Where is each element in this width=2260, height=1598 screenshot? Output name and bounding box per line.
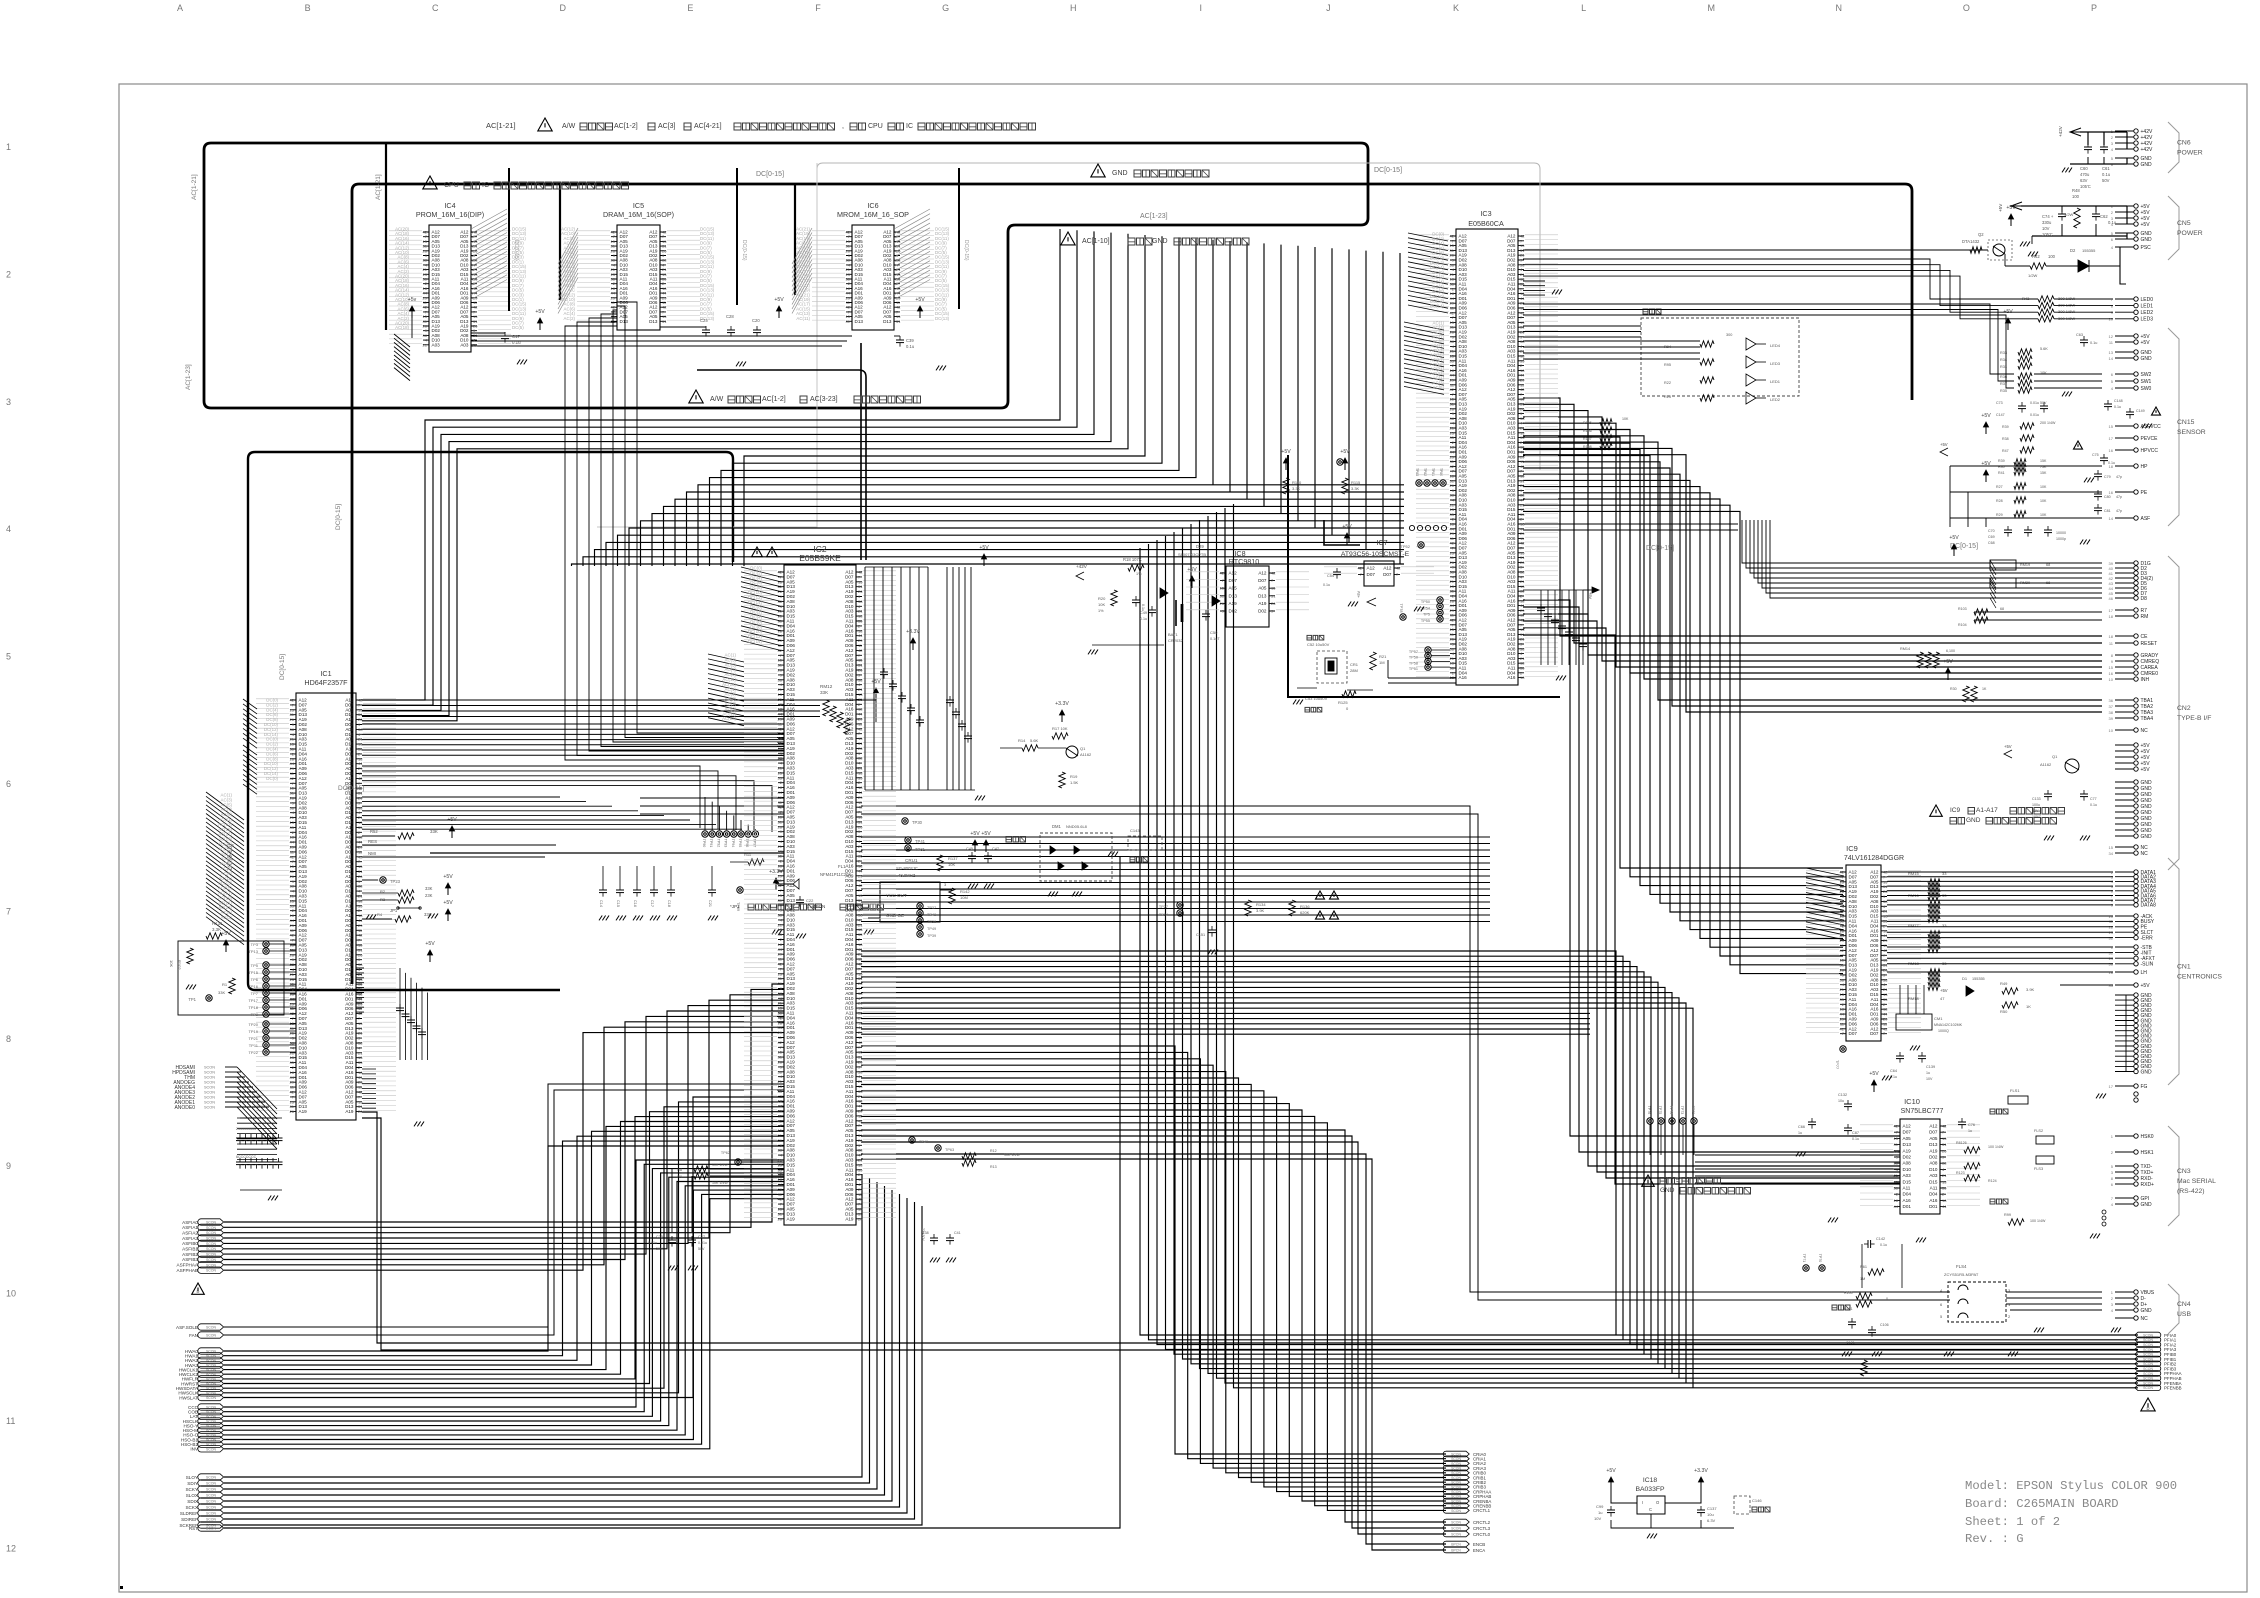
svg-text:1%: 1% bbox=[1098, 609, 1104, 613]
svg-text:ASFIA2: ASFIA2 bbox=[182, 1231, 198, 1236]
svg-text:6.3V: 6.3V bbox=[1707, 1518, 1716, 1523]
svg-text:IC5: IC5 bbox=[633, 201, 644, 210]
svg-text:16: 16 bbox=[2109, 671, 2114, 676]
svg-text:C17: C17 bbox=[650, 900, 654, 907]
resistor R43 R44 R45 R46 LED outputs bbox=[2022, 296, 2153, 323]
svg-text:C41: C41 bbox=[954, 1231, 961, 1235]
svg-text:BA033FP: BA033FP bbox=[1635, 1486, 1665, 1493]
svg-text:330u: 330u bbox=[2042, 220, 2052, 225]
svg-text:31: 31 bbox=[1894, 1142, 1899, 1147]
svg-text:+5V: +5V bbox=[443, 900, 453, 906]
svg-text:D13: D13 bbox=[883, 319, 892, 324]
svg-text:MNA142C102MK: MNA142C102MK bbox=[1934, 1023, 1963, 1027]
svg-text:AT93C56-10SCMST-E: AT93C56-10SCMST-E bbox=[1341, 551, 1410, 558]
svg-text:TP24: TP24 bbox=[1159, 913, 1168, 917]
svg-text:OPCN: OPCN bbox=[812, 904, 825, 909]
svg-text:RM12: RM12 bbox=[820, 684, 833, 689]
svg-text:A12: A12 bbox=[1367, 566, 1376, 571]
svg-text:D: D bbox=[2146, 1406, 2149, 1411]
svg-text:31: 31 bbox=[846, 319, 851, 324]
svg-text:0: 0 bbox=[1886, 1297, 1888, 1301]
wire bus IC3 to PF stubs fan bbox=[1523, 524, 1738, 530]
svg-text:A19: A19 bbox=[1903, 1148, 1912, 1153]
svg-text:33K: 33K bbox=[430, 829, 438, 834]
wire TP90-97 drops bbox=[705, 797, 755, 830]
svg-text:100u: 100u bbox=[2032, 803, 2040, 807]
svg-text:R110: R110 bbox=[1292, 480, 1302, 485]
svg-text:DC(0-15): DC(0-15) bbox=[513, 240, 519, 261]
svg-text:37: 37 bbox=[2109, 704, 2114, 709]
svg-text:RM18: RM18 bbox=[1908, 996, 1919, 1001]
svg-text:33K: 33K bbox=[820, 690, 829, 695]
svg-text:C50: C50 bbox=[1210, 630, 1218, 635]
svg-text:MROM_16M_16_SOP: MROM_16M_16_SOP bbox=[837, 210, 909, 219]
svg-text:SCON: SCON bbox=[206, 1334, 217, 1338]
svg-text:36: 36 bbox=[2109, 698, 2114, 703]
wire bus AC drop to IC6 bbox=[794, 185, 796, 295]
svg-text:10K: 10K bbox=[948, 862, 955, 867]
svg-text:SCON: SCON bbox=[206, 1500, 217, 1504]
svg-text:A05: A05 bbox=[1929, 1136, 1938, 1141]
svg-text:R19: R19 bbox=[1070, 774, 1078, 779]
svg-text:TP52: TP52 bbox=[1400, 544, 1410, 549]
svg-text:TP78: TP78 bbox=[1399, 603, 1403, 612]
svg-text:POWER: POWER bbox=[2177, 150, 2203, 157]
svg-text:BCON: BCON bbox=[206, 1527, 217, 1531]
svg-text:A03: A03 bbox=[460, 342, 469, 347]
svg-text:TP48: TP48 bbox=[927, 913, 936, 917]
svg-text:1u: 1u bbox=[1926, 1071, 1930, 1075]
svg-text:R48: R48 bbox=[2072, 188, 2080, 193]
svg-text:LED1: LED1 bbox=[2141, 303, 2154, 309]
svg-text:200 1/4W: 200 1/4W bbox=[2040, 421, 2056, 425]
svg-text:R137: R137 bbox=[948, 856, 958, 861]
svg-text:R108: R108 bbox=[1583, 445, 1592, 449]
svg-text:NND05.6L8: NND05.6L8 bbox=[1066, 824, 1088, 829]
svg-text:ZCYS51R5-M3PAT: ZCYS51R5-M3PAT bbox=[1944, 1272, 1979, 1277]
svg-text:47: 47 bbox=[1940, 996, 1945, 1001]
capacitor C60 C61 bbox=[2058, 125, 2127, 189]
svg-text:FLS2: FLS2 bbox=[2034, 1129, 2043, 1133]
svg-text:+5V: +5V bbox=[970, 831, 980, 837]
svg-text:50V: 50V bbox=[698, 1247, 705, 1251]
svg-text:C18: C18 bbox=[667, 900, 671, 907]
svg-text:LED1: LED1 bbox=[1770, 379, 1781, 384]
svg-text:TP77: TP77 bbox=[1835, 1060, 1839, 1069]
svg-text:GND: GND bbox=[2141, 356, 2153, 362]
svg-text:100 1/4W: 100 1/4W bbox=[2030, 1219, 2046, 1223]
warning triangle D bottom right bbox=[2141, 1398, 2155, 1411]
svg-text:10000: 10000 bbox=[2056, 531, 2066, 535]
svg-text:AC[1-21]: AC[1-21] bbox=[375, 174, 382, 200]
svg-text:CENTRONICS: CENTRONICS bbox=[2177, 974, 2222, 981]
svg-text:CR1: CR1 bbox=[1350, 662, 1359, 667]
svg-text:10: 10 bbox=[2109, 677, 2114, 682]
svg-text:F: F bbox=[815, 3, 821, 13]
svg-text:10: 10 bbox=[6, 1289, 16, 1299]
svg-text:+5V: +5V bbox=[1342, 524, 1352, 530]
connector CN15 SENSOR bbox=[2109, 328, 2206, 526]
svg-text:3.3K: 3.3K bbox=[212, 927, 221, 932]
svg-text:C131: C131 bbox=[1846, 1341, 1855, 1345]
capacitor C24 C28 C20 bbox=[660, 297, 784, 366]
transistor Q1 A1162 capacitor C133 C77 bbox=[2004, 744, 2097, 840]
svg-text:A19: A19 bbox=[845, 1216, 854, 1221]
svg-text:C14: C14 bbox=[599, 900, 603, 907]
diode module DM1 NND05.6L8 bbox=[966, 824, 1112, 896]
svg-text:+5V: +5V bbox=[915, 297, 925, 303]
svg-text:105'C: 105'C bbox=[2042, 232, 2053, 237]
svg-text:+5V: +5V bbox=[1281, 449, 1291, 455]
svg-text:16: 16 bbox=[2109, 448, 2114, 453]
svg-text:SCON: SCON bbox=[1451, 1532, 1461, 1536]
svg-text:PEVCE: PEVCE bbox=[2141, 436, 2159, 442]
svg-text:15: 15 bbox=[2109, 845, 2114, 850]
svg-text:C137: C137 bbox=[1707, 1506, 1717, 1511]
svg-text:R11: R11 bbox=[744, 852, 752, 857]
svg-text:46: 46 bbox=[2109, 596, 2114, 601]
svg-text:TP96: TP96 bbox=[745, 839, 749, 848]
wire bus AC drop to IC4 bbox=[385, 144, 387, 330]
svg-text:TP63: TP63 bbox=[945, 1148, 954, 1152]
svg-text:10K: 10K bbox=[2040, 513, 2047, 517]
svg-text:FAN: FAN bbox=[189, 1333, 198, 1338]
svg-text:A1-A17: A1-A17 bbox=[1976, 807, 1998, 814]
svg-text:R134: R134 bbox=[1256, 902, 1266, 907]
svg-text:48.0MHZ: 48.0MHZ bbox=[898, 873, 916, 878]
svg-text:26: 26 bbox=[1271, 601, 1276, 606]
svg-text:A16: A16 bbox=[1903, 1198, 1912, 1203]
svg-text:G: G bbox=[942, 3, 949, 13]
svg-text:68: 68 bbox=[2000, 607, 2004, 611]
svg-text:-ERR: -ERR bbox=[2141, 935, 2154, 941]
svg-text:DC(0-15): DC(0-15) bbox=[741, 240, 747, 261]
text AC(1-21) vertical label2 bbox=[375, 174, 382, 200]
svg-text:RST: RST bbox=[189, 1526, 198, 1531]
svg-text:AC[4-21]: AC[4-21] bbox=[694, 123, 722, 130]
svg-text:C148: C148 bbox=[2114, 399, 2123, 403]
svg-text:44: 44 bbox=[1942, 1204, 1947, 1209]
svg-text:31: 31 bbox=[896, 319, 901, 324]
svg-text:TP31: TP31 bbox=[915, 847, 926, 852]
svg-text:TP30: TP30 bbox=[912, 820, 923, 825]
svg-text:7: 7 bbox=[6, 906, 11, 916]
svg-text:SDIY: SDIY bbox=[187, 1481, 198, 1486]
text annotation AC(1-21) separation note bbox=[486, 118, 1036, 131]
svg-text:AC[1-10]: AC[1-10] bbox=[1082, 238, 1110, 245]
svg-text:DC(5): DC(5) bbox=[512, 325, 524, 330]
svg-text:TP18: TP18 bbox=[248, 1005, 258, 1010]
svg-text:0.01u: 0.01u bbox=[2030, 413, 2039, 417]
svg-text:+5V: +5V bbox=[871, 679, 881, 685]
svg-text:IC9: IC9 bbox=[1950, 807, 1961, 814]
text annotation IC9 guard note bbox=[1930, 805, 2065, 824]
svg-text:AC(11): AC(11) bbox=[796, 316, 810, 321]
svg-text:15K: 15K bbox=[2040, 459, 2047, 463]
svg-text:RM: RM bbox=[2141, 614, 2149, 620]
svg-text:C133: C133 bbox=[2032, 797, 2041, 801]
wire USBINT HINT rows bbox=[640, 798, 784, 814]
svg-text:TP91: TP91 bbox=[709, 839, 713, 848]
svg-text:R3: R3 bbox=[380, 897, 386, 902]
svg-text:17: 17 bbox=[2109, 608, 2114, 613]
svg-text:C68: C68 bbox=[1988, 541, 1995, 545]
wire CN4 row nets bbox=[2006, 1292, 2102, 1310]
svg-text:TP17: TP17 bbox=[248, 998, 258, 1003]
resistor R110 R115 IC3 left bbox=[1281, 449, 1446, 549]
svg-text:1K: 1K bbox=[1982, 687, 1987, 691]
svg-text:SCON: SCON bbox=[206, 1420, 217, 1424]
svg-text:R102: R102 bbox=[177, 960, 182, 970]
op-amp IC5 DRAM_16M_16(SOP) bbox=[558, 201, 715, 330]
svg-text:GND: GND bbox=[1112, 170, 1128, 177]
svg-text:D02: D02 bbox=[1258, 609, 1267, 614]
svg-text:620K: 620K bbox=[1300, 910, 1310, 915]
svg-text:R61: R61 bbox=[1860, 1265, 1867, 1269]
crystal CR1 28M cluster bbox=[1293, 635, 1456, 712]
svg-text:TP55: TP55 bbox=[1421, 619, 1430, 623]
svg-text:D04: D04 bbox=[1929, 1192, 1938, 1197]
svg-text:+5V: +5V bbox=[1981, 413, 1991, 419]
svg-text:A16: A16 bbox=[1459, 675, 1468, 680]
svg-text:C47: C47 bbox=[992, 847, 999, 851]
svg-text:0.1u: 0.1u bbox=[2090, 341, 2097, 345]
svg-text:BAT1: BAT1 bbox=[1168, 632, 1178, 637]
svg-text:CE: CE bbox=[2141, 634, 2149, 640]
svg-text:SCON: SCON bbox=[204, 1101, 215, 1105]
svg-text:0.1u: 0.1u bbox=[1323, 583, 1330, 587]
svg-text:C27: C27 bbox=[698, 1235, 705, 1239]
svg-text:10M: 10M bbox=[960, 895, 968, 900]
svg-text:ENCA: ENCA bbox=[1473, 1548, 1485, 1553]
svg-text:SCON: SCON bbox=[204, 1106, 215, 1110]
svg-text:TP38: TP38 bbox=[927, 920, 936, 924]
svg-text:RTC9810: RTC9810 bbox=[1229, 557, 1260, 566]
op-amp IC8 RTC9810 bbox=[1186, 549, 1309, 627]
svg-text:SCON: SCON bbox=[206, 1433, 217, 1437]
svg-text:CN3: CN3 bbox=[2177, 1168, 2191, 1175]
svg-text:1: 1 bbox=[6, 142, 11, 152]
node ASFIA stub column bbox=[177, 1219, 224, 1274]
svg-text:18: 18 bbox=[1520, 675, 1525, 680]
svg-text:R18 107K: R18 107K bbox=[1123, 557, 1142, 562]
svg-text:SDIREF: SDIREF bbox=[181, 1517, 198, 1522]
svg-text:FG: FG bbox=[2141, 1084, 2148, 1090]
svg-text:SCON: SCON bbox=[206, 1377, 217, 1381]
svg-text:12: 12 bbox=[6, 1543, 16, 1553]
svg-text:PFENBB: PFENBB bbox=[2164, 1386, 2182, 1391]
wire bus CRIA/CR stubs to IC2 bbox=[861, 1046, 1446, 1534]
svg-text:5.6K: 5.6K bbox=[2040, 347, 2048, 351]
svg-text:C147: C147 bbox=[1996, 413, 2005, 417]
svg-text:R142: R142 bbox=[960, 889, 970, 894]
svg-text:0.1u: 0.1u bbox=[1141, 604, 1145, 611]
svg-text:21: 21 bbox=[473, 342, 478, 347]
svg-text:AC[1-21]: AC[1-21] bbox=[486, 121, 516, 130]
svg-text:CRCTL0: CRCTL0 bbox=[1473, 1532, 1491, 1537]
testpoint TP62 resistor R8 R9 bbox=[672, 1151, 784, 1232]
text annotation A/W separation note 2 bbox=[689, 390, 921, 403]
svg-text:0.01u: 0.01u bbox=[648, 1241, 657, 1245]
svg-text:+5V: +5V bbox=[2141, 340, 2151, 346]
svg-text:TP97: TP97 bbox=[752, 839, 756, 848]
svg-text:300 1/8W: 300 1/8W bbox=[2058, 316, 2075, 321]
svg-text:+5V: +5V bbox=[1869, 1071, 1879, 1077]
filter FLS4 ZCYS51R5-M3PAT USB parts bbox=[1802, 1237, 2018, 1376]
svg-text:C17: C17 bbox=[512, 334, 521, 339]
svg-text:LED4: LED4 bbox=[1770, 343, 1781, 348]
svg-text:D02: D02 bbox=[1903, 1155, 1912, 1160]
svg-text:1u: 1u bbox=[1798, 1131, 1802, 1135]
svg-text:74LV161284DGGR: 74LV161284DGGR bbox=[1844, 855, 1904, 862]
wire IC6 drop pair bbox=[697, 343, 866, 560]
svg-text:CN2: CN2 bbox=[2177, 705, 2191, 712]
node CCC stub column bbox=[181, 1404, 224, 1452]
svg-text:D: D bbox=[560, 3, 567, 13]
svg-text:SCON: SCON bbox=[206, 1387, 217, 1391]
svg-text:C64: C64 bbox=[1890, 1069, 1897, 1073]
svg-text:AC[1-2]: AC[1-2] bbox=[762, 396, 786, 403]
svg-text:FLS4: FLS4 bbox=[1956, 1264, 1967, 1269]
svg-text:A/W: A/W bbox=[562, 123, 576, 130]
testpoint TP27 TP24 bbox=[1159, 902, 1183, 917]
svg-text:CN5: CN5 bbox=[2177, 220, 2191, 227]
svg-text:E: E bbox=[687, 3, 693, 13]
svg-text:9: 9 bbox=[6, 1161, 11, 1171]
svg-text:A03: A03 bbox=[1929, 1173, 1938, 1178]
wire AN pins bbox=[362, 1069, 376, 1108]
svg-text:D10: D10 bbox=[1903, 1167, 1912, 1172]
svg-text:1.5K: 1.5K bbox=[1070, 780, 1079, 785]
svg-text:68: 68 bbox=[2046, 563, 2050, 567]
svg-text:26: 26 bbox=[358, 1109, 363, 1114]
text DC(0-15) mid right bbox=[1950, 543, 1978, 550]
text DC(0-15) vertical label2 bbox=[279, 654, 286, 680]
svg-text:SCON: SCON bbox=[1451, 1526, 1461, 1530]
op-amp IC4 PROM_16M_16(DIP) bbox=[389, 201, 527, 381]
svg-text:R52: R52 bbox=[370, 829, 378, 834]
wire bus DC guard light box around IC3 bbox=[817, 163, 1540, 470]
svg-text:SCKX: SCKX bbox=[185, 1505, 198, 1510]
svg-text:DC(0): DC(0) bbox=[266, 776, 278, 781]
svg-text:31: 31 bbox=[1220, 593, 1225, 598]
capacitor IC1 power cluster bbox=[356, 941, 435, 1126]
svg-text:D07: D07 bbox=[1229, 578, 1238, 583]
svg-text:10K: 10K bbox=[1622, 417, 1629, 421]
svg-text:SCON: SCON bbox=[206, 1512, 217, 1516]
resistor R52 33K bbox=[362, 817, 457, 839]
svg-text:C69: C69 bbox=[1988, 535, 1995, 539]
svg-text:DRAM_16M_16(SOP): DRAM_16M_16(SOP) bbox=[603, 210, 674, 219]
svg-text:1M: 1M bbox=[1860, 1277, 1865, 1281]
svg-text:O: O bbox=[1963, 3, 1970, 13]
svg-text:A12: A12 bbox=[1903, 1124, 1912, 1129]
svg-text:1000p: 1000p bbox=[2056, 537, 2066, 541]
testpoint TP20-TP22 cluster bbox=[248, 1021, 296, 1055]
wire bus IC1-IC2 control lines bbox=[362, 724, 784, 755]
svg-text:C80: C80 bbox=[2104, 495, 2111, 499]
svg-text:TYPE-B I/F: TYPE-B I/F bbox=[2177, 715, 2211, 722]
svg-text:22p 50V: 22p 50V bbox=[921, 1228, 925, 1241]
text annotation 5 lines GND guard note bbox=[1642, 1175, 1751, 1194]
svg-text:CN6: CN6 bbox=[2177, 140, 2191, 147]
wire PSC net bbox=[1523, 249, 1902, 251]
svg-text:C76: C76 bbox=[1968, 1123, 1975, 1127]
svg-text:SG-8002JC: SG-8002JC bbox=[896, 866, 918, 871]
wire bus TIOCA lines bbox=[362, 766, 772, 832]
svg-text:C54: C54 bbox=[1327, 574, 1334, 578]
text annotation GND guard ring note bbox=[1091, 164, 1209, 177]
svg-text:ASFIB1: ASFIB1 bbox=[182, 1247, 198, 1252]
svg-text:C99: C99 bbox=[1596, 1504, 1604, 1509]
svg-text:C142: C142 bbox=[1876, 1237, 1885, 1241]
svg-text:R28: R28 bbox=[1996, 499, 2003, 503]
svg-text:TP62: TP62 bbox=[721, 1151, 730, 1155]
wire bus AC second thick run bbox=[352, 184, 1912, 984]
svg-text:GND: GND bbox=[2141, 1202, 2153, 1208]
op-amp CRU1 oscillator SG-8002JC bbox=[730, 852, 952, 938]
svg-text:TP6: TP6 bbox=[251, 977, 259, 982]
svg-text:ASFIA3: ASFIA3 bbox=[182, 1236, 198, 1241]
svg-text:42: 42 bbox=[1396, 566, 1401, 571]
svg-text:D13: D13 bbox=[1903, 1142, 1912, 1147]
svg-text:21: 21 bbox=[423, 342, 428, 347]
page corner dot bbox=[120, 1586, 123, 1589]
op-amp IC9 74LV161284DGGR bbox=[1806, 844, 1921, 1041]
svg-text:FLS1: FLS1 bbox=[2010, 1088, 2020, 1093]
svg-text:TP94: TP94 bbox=[731, 839, 735, 848]
svg-text:TP39: TP39 bbox=[927, 934, 936, 938]
svg-text:HWSLAT: HWSLAT bbox=[179, 1395, 198, 1400]
svg-text:P: P bbox=[2091, 3, 2097, 13]
svg-text:+5V: +5V bbox=[2006, 205, 2016, 211]
svg-text:42: 42 bbox=[1894, 1124, 1899, 1129]
svg-text:+5V: +5V bbox=[1606, 1468, 1616, 1474]
svg-text:IC3: IC3 bbox=[1480, 209, 1491, 218]
wire bus IRQ lines bbox=[362, 797, 742, 829]
svg-text:+42V: +42V bbox=[2141, 147, 2153, 153]
svg-text:,: , bbox=[842, 123, 844, 130]
svg-text:A1162: A1162 bbox=[2040, 762, 2052, 767]
text DC(0-15) top right bbox=[1374, 167, 1402, 174]
svg-text:10u: 10u bbox=[1838, 1099, 1844, 1103]
svg-text:D02: D02 bbox=[1929, 1155, 1938, 1160]
svg-text:C132: C132 bbox=[1838, 1093, 1847, 1097]
node RST stub bbox=[189, 1525, 224, 1531]
connector CN2 TYPE-B I/F bbox=[2109, 556, 2212, 870]
svg-text:SCON: SCON bbox=[204, 1071, 215, 1075]
svg-text:C22: C22 bbox=[806, 898, 814, 903]
wire bus IC3 to CN3 fan bbox=[1523, 600, 1900, 1184]
svg-text:TP1: TP1 bbox=[188, 997, 196, 1002]
svg-text:D13: D13 bbox=[1229, 593, 1238, 598]
filter CM1 MNA142C102MK bbox=[1896, 985, 1963, 1050]
svg-text:TP8: TP8 bbox=[251, 1012, 259, 1017]
svg-text:SCON: SCON bbox=[204, 1076, 215, 1080]
svg-text:26: 26 bbox=[858, 1216, 863, 1221]
svg-text:470u: 470u bbox=[2080, 172, 2090, 177]
node HDSAMI/ANODE stub column bbox=[172, 1065, 277, 1149]
svg-text:AC(2): AC(2) bbox=[564, 316, 576, 321]
svg-text:C66: C66 bbox=[1798, 1125, 1805, 1129]
svg-text:+42V: +42V bbox=[1076, 564, 1088, 569]
svg-text:A12: A12 bbox=[1258, 571, 1267, 576]
svg-text:SCON: SCON bbox=[206, 1410, 217, 1414]
svg-text:J: J bbox=[1326, 3, 1331, 13]
svg-text:DC(14): DC(14) bbox=[748, 639, 763, 644]
svg-text:SW2: SW2 bbox=[2141, 372, 2152, 378]
svg-text:A12: A12 bbox=[1229, 571, 1238, 576]
